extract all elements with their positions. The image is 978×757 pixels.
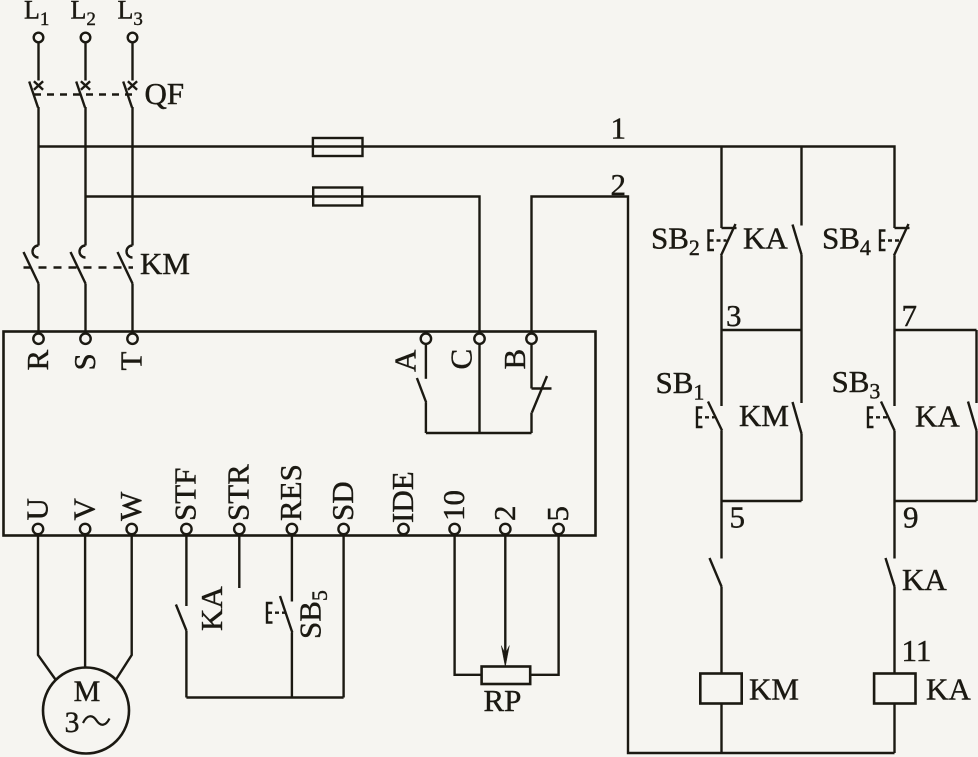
wire bottom link STF-SD xyxy=(186,696,343,698)
wire node3 to KM aux xyxy=(800,330,802,403)
svg-text:C: C xyxy=(444,349,479,370)
wire W to motor xyxy=(116,535,132,680)
wire node7 to SB3 xyxy=(893,330,895,406)
wire node5 down xyxy=(720,501,722,559)
svg-text:KA: KA xyxy=(743,221,788,256)
wire KM pole1 to R xyxy=(37,284,39,334)
svg-text:3: 3 xyxy=(65,706,80,739)
internal contact at B (NC) xyxy=(532,344,552,433)
wire QF pole3 down xyxy=(131,107,133,246)
wire line 2 xyxy=(86,197,480,334)
wire STF down xyxy=(185,535,187,606)
push button SB4 (NC) xyxy=(880,224,910,256)
wire KA coil to rail xyxy=(893,704,895,754)
node 5 xyxy=(722,500,802,535)
terminal STF xyxy=(168,468,203,535)
svg-text:2: 2 xyxy=(487,506,522,522)
wire SD down xyxy=(342,535,344,698)
svg-text:RP: RP xyxy=(484,683,522,718)
terminal B xyxy=(497,334,537,370)
wire STR stub xyxy=(238,535,240,588)
wire KM pole2 to S xyxy=(84,284,86,334)
svg-text:KA: KA xyxy=(194,586,229,631)
svg-text:U: U xyxy=(20,498,55,520)
svg-text:M: M xyxy=(74,675,101,708)
coil KM xyxy=(700,672,799,707)
terminal T xyxy=(114,334,149,371)
svg-text:1: 1 xyxy=(611,111,627,146)
wire node7 right branch xyxy=(975,330,977,403)
svg-text:QF: QF xyxy=(145,76,185,111)
svg-text:KA: KA xyxy=(915,399,960,434)
circuit breaker QF pole 2 xyxy=(76,81,90,107)
svg-text:KM: KM xyxy=(749,672,799,707)
push button SB3 (NO) xyxy=(868,402,895,502)
terminal 2 xyxy=(487,506,522,535)
svg-text:STR: STR xyxy=(221,464,256,521)
push button SB1 (NO) xyxy=(697,402,722,502)
svg-text:V: V xyxy=(67,498,102,521)
svg-text:RES: RES xyxy=(273,464,308,521)
wire L2 to QF xyxy=(84,43,86,81)
terminal 5 xyxy=(540,506,575,534)
svg-text:KA: KA xyxy=(902,562,947,597)
terminal W xyxy=(113,491,148,534)
node 9 xyxy=(895,500,977,535)
svg-text:R: R xyxy=(20,350,55,371)
wire QF pole1 down xyxy=(37,107,39,246)
terminal IDE xyxy=(385,471,420,534)
contact KA on STF (NO) xyxy=(176,605,187,698)
terminal 10 xyxy=(436,490,471,534)
terminal S xyxy=(67,334,102,371)
fuse FU1 xyxy=(313,138,363,156)
KM linkage dashed xyxy=(24,266,134,268)
potentiometer RP xyxy=(482,667,531,719)
inverter box U1 xyxy=(4,332,596,536)
wire V to motor xyxy=(84,535,86,668)
contact KM aux (NO) xyxy=(793,402,802,501)
contact KA seal-in (NO) xyxy=(793,225,802,331)
svg-text:T: T xyxy=(114,352,149,371)
wire QF pole2 down xyxy=(84,107,86,246)
fuse FU2 xyxy=(313,188,362,206)
svg-text:W: W xyxy=(113,491,148,521)
contactor KM pole 2 xyxy=(71,246,86,284)
QF linkage dashed xyxy=(34,93,133,95)
terminal L2 xyxy=(71,0,96,42)
svg-text:S: S xyxy=(67,353,102,370)
wire U to motor xyxy=(38,535,56,680)
contact below node5 (NO) xyxy=(710,558,722,674)
contactor KM pole 3 xyxy=(118,246,133,284)
wire SB2 to node 3 xyxy=(720,256,722,331)
wire RES down xyxy=(291,535,293,602)
terminal R xyxy=(20,334,55,371)
svg-text:IDE: IDE xyxy=(385,471,420,523)
wire line 1 xyxy=(39,147,895,229)
svg-text:5: 5 xyxy=(540,506,575,522)
terminal SD xyxy=(325,481,360,534)
contactor KM pole 1 xyxy=(24,246,39,284)
svg-text:7: 7 xyxy=(902,298,918,333)
terminal A xyxy=(388,334,432,373)
wire KM pole3 to T xyxy=(131,284,133,334)
svg-text:5: 5 xyxy=(730,500,746,535)
svg-text:KM: KM xyxy=(739,398,789,433)
svg-text:KM: KM xyxy=(140,246,190,281)
push button SB2 (NC) xyxy=(709,224,737,256)
svg-text:B: B xyxy=(497,349,532,370)
wire node3 to SB1 xyxy=(720,330,722,406)
svg-text:11: 11 xyxy=(902,633,932,668)
circuit breaker QF pole 3 xyxy=(123,81,137,107)
terminal U xyxy=(20,498,55,534)
wire KM coil to rail xyxy=(720,704,722,754)
contact KA seal-in right (NO) xyxy=(968,402,977,502)
wire line1 branch to SB2 xyxy=(720,147,722,229)
wire L1 to QF xyxy=(37,43,39,81)
wire terminal 2 wiper arrow xyxy=(501,535,509,667)
terminal C xyxy=(444,334,485,370)
contact KA below node9 (NO) xyxy=(886,558,895,674)
internal link A-C-B xyxy=(426,432,532,434)
svg-text:SD: SD xyxy=(325,481,360,521)
wire L3 to QF xyxy=(131,43,133,81)
node 7 xyxy=(895,298,977,333)
wire line1 branch to KA xyxy=(800,147,802,226)
internal wire C xyxy=(478,344,480,433)
svg-text:KA: KA xyxy=(926,672,971,707)
terminal STR xyxy=(221,464,256,534)
motor M xyxy=(43,668,129,754)
terminal L1 xyxy=(24,0,49,42)
internal contact at A (NO) xyxy=(417,344,426,433)
wire node9 down xyxy=(893,501,895,559)
wire SB4 to node 7 xyxy=(893,256,895,331)
wire terminal 10 to RP xyxy=(455,535,482,675)
push button SB5 (NO) xyxy=(267,596,292,698)
node 3 xyxy=(722,298,802,333)
svg-text:10: 10 xyxy=(436,490,471,521)
wire terminal B riser to rail 2 xyxy=(532,197,895,754)
svg-text:A: A xyxy=(388,349,423,372)
terminal V xyxy=(67,498,102,535)
terminal L3 xyxy=(118,0,143,42)
wire terminal 5 to RP xyxy=(530,535,558,675)
svg-text:STF: STF xyxy=(168,468,203,521)
coil KA xyxy=(874,672,971,707)
terminal RES xyxy=(273,464,308,534)
svg-text:9: 9 xyxy=(903,500,919,535)
circuit breaker QF pole 1 xyxy=(29,81,43,107)
svg-text:3: 3 xyxy=(726,298,742,333)
